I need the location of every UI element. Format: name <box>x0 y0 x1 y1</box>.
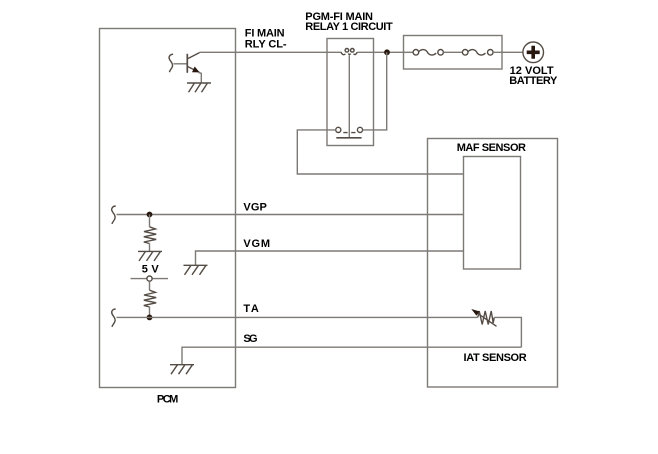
wire coil to junction and fuse box <box>357 51 413 53</box>
transistor Q1 emitter <box>188 67 200 73</box>
MAF sensor inner element rectangle <box>464 157 521 270</box>
5V supply terminal circle <box>147 276 152 281</box>
wire relay armature vertical <box>348 55 350 137</box>
label PGM-FI MAIN RELAY 1 CIRCUIT <box>305 11 393 33</box>
battery plus symbol <box>527 46 540 59</box>
ground (transistor emitter) <box>187 83 211 92</box>
fuse F2 left terminal <box>462 50 468 56</box>
label FI MAIN RLY CL- <box>245 28 287 51</box>
wire fuse box to battery <box>493 51 523 53</box>
svg-text:IAT SENSOR: IAT SENSOR <box>464 352 527 364</box>
PCM box <box>100 29 236 388</box>
fuse F2 element <box>468 50 486 55</box>
ground (VGM) <box>184 265 208 275</box>
fuse F2 right terminal <box>488 50 494 56</box>
wire resistor R1 to ground <box>149 243 151 251</box>
fuse F1 element <box>419 50 437 55</box>
fuse F1 right terminal <box>438 50 444 56</box>
wire VGP dot to resistor <box>149 215 151 227</box>
relay switch blade <box>336 137 361 139</box>
wire VGM <box>196 251 464 265</box>
thermistor arrowhead <box>471 309 479 316</box>
junction dot TA <box>147 315 153 321</box>
wire relay right contact to main line <box>363 52 387 130</box>
wire TA thermistor to corner <box>494 317 521 347</box>
fuse F1 left terminal <box>413 50 419 56</box>
wire FI MAIN RLY CL- main line <box>200 51 342 53</box>
wire relay left contact to MAF sensor <box>297 130 463 174</box>
svg-text:RELAY 1 CIRCUIT: RELAY 1 CIRCUIT <box>305 21 393 33</box>
svg-text:5 V: 5 V <box>142 263 160 275</box>
junction dot VGP <box>147 212 153 218</box>
wire SG <box>182 347 521 365</box>
svg-text:VGM: VGM <box>243 238 270 250</box>
5V supply rail <box>131 278 169 280</box>
wire TA <box>117 316 478 318</box>
resistor R2 <box>144 290 156 307</box>
transistor Q1 base break squiggle <box>169 54 173 72</box>
resistor R1 <box>144 227 156 244</box>
MAF/IAT sensor outer box <box>428 139 558 388</box>
wire transistor base <box>174 63 188 65</box>
relay coil L1 <box>341 49 358 55</box>
wire 5V terminal to resistor R2 <box>149 282 151 291</box>
svg-text:RLY CL-: RLY CL- <box>245 38 287 50</box>
VGP break squiggle <box>112 206 116 224</box>
transistor Q1 emitter arrowhead <box>192 67 200 73</box>
label 12 VOLT BATTERY <box>509 65 558 87</box>
fuse box <box>404 36 503 70</box>
relay contact left <box>336 127 341 132</box>
svg-text:MAF SENSOR: MAF SENSOR <box>457 142 526 154</box>
thermistor arrow <box>477 313 497 326</box>
transistor Q1 base bar <box>186 54 188 73</box>
wire emitter to ground <box>198 72 201 83</box>
wire between fuses <box>443 51 462 53</box>
relay box PGM-FI MAIN RELAY 1 <box>327 39 374 146</box>
svg-text:VGP: VGP <box>243 201 266 213</box>
svg-text:BATTERY: BATTERY <box>509 75 558 87</box>
wire resistor R2 to TA <box>149 307 151 318</box>
relay contact dashed link <box>343 132 355 134</box>
ground (R1) <box>138 251 162 261</box>
relay contact right <box>357 127 362 132</box>
battery positive terminal circle <box>523 42 544 63</box>
ground (SG) <box>170 365 194 375</box>
TA break squiggle <box>112 309 116 327</box>
transistor Q1 collector <box>188 53 200 59</box>
wire VGP <box>117 214 464 216</box>
svg-text:TA: TA <box>243 303 258 315</box>
svg-text:PCM: PCM <box>157 393 178 405</box>
junction dot main line <box>384 49 390 55</box>
svg-text:SG: SG <box>243 333 257 345</box>
thermistor IAT zigzag <box>478 311 495 325</box>
